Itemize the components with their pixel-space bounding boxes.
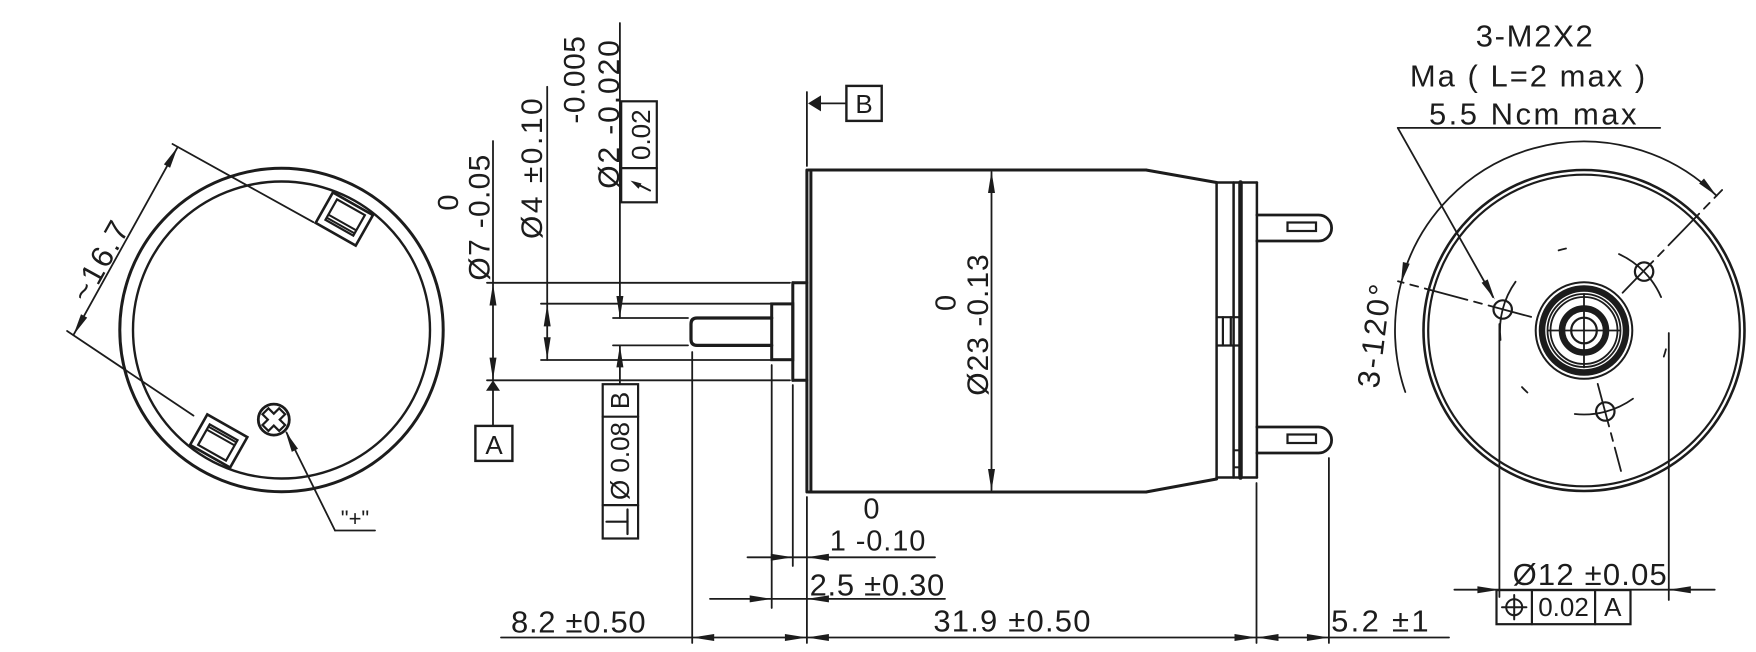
- dia4 dimension line: [546, 87, 548, 360]
- position FCF frame: [1497, 590, 1631, 624]
- screw hole 3: [1596, 402, 1614, 420]
- body outline: [807, 170, 1217, 492]
- bottom extension line collar: [771, 365, 773, 608]
- datum B extension line: [806, 92, 808, 166]
- svg-text:0.02: 0.02: [626, 109, 656, 160]
- dia7 arrow up: [490, 284, 497, 306]
- svg-text:5.5 Ncm max: 5.5 Ncm max: [1429, 97, 1639, 132]
- dia2 dimension line: [619, 23, 621, 318]
- left view outer circle: [120, 168, 443, 491]
- svg-text:0: 0: [931, 295, 963, 311]
- svg-text:Ø4 ±0.10: Ø4 ±0.10: [516, 96, 549, 239]
- boss thick ring: [1542, 289, 1626, 373]
- svg-text:-0.005: -0.005: [559, 36, 592, 124]
- terminal pin top: [1257, 215, 1332, 241]
- bottom extension line shaft tip: [691, 352, 693, 643]
- dim ~16.7 extension line bottom: [67, 331, 193, 416]
- datum A leader: [492, 391, 494, 426]
- bottom extension line cap right: [1256, 483, 1258, 643]
- dia23 arrow up: [988, 171, 995, 193]
- arrows 8.2: [692, 634, 714, 641]
- end cap: [1217, 183, 1257, 478]
- dia4 arrow down: [544, 337, 551, 359]
- bottom dim line: [501, 637, 1449, 639]
- shaft inner circle: [1571, 318, 1597, 344]
- leader M2 callout: [1398, 128, 1493, 297]
- screw hole 2: [1494, 300, 1512, 318]
- dia7 dimension line: [492, 141, 494, 380]
- datum B triangle: [808, 95, 821, 111]
- terminal pin bottom slot: [1288, 435, 1317, 444]
- dia4 arrow up: [544, 304, 551, 326]
- radial centerline hole3: [1598, 384, 1621, 471]
- svg-text:Ø23 -0.13: Ø23 -0.13: [962, 253, 995, 395]
- datum A box: [475, 426, 512, 461]
- arc arrowhead left: [1401, 262, 1410, 283]
- dia12 dimension line: [1454, 589, 1714, 591]
- dia7 arrow down: [490, 358, 497, 380]
- svg-text:0: 0: [863, 494, 879, 526]
- center crosshair: [1549, 330, 1620, 332]
- right view outer circle: [1424, 170, 1745, 491]
- svg-text:A: A: [485, 430, 503, 460]
- boss circle dia7: [1536, 282, 1633, 379]
- shaft boss dia7: [793, 283, 807, 381]
- leader line to "+" label: [287, 433, 336, 531]
- perpendicularity symbol: [626, 510, 628, 535]
- svg-text:2.5 ±0.30: 2.5 ±0.30: [810, 568, 945, 603]
- X cross inside terminal: [257, 403, 290, 436]
- bolt circle dashed: [1619, 254, 1661, 297]
- svg-text:8.2 ±0.50: 8.2 ±0.50: [511, 605, 646, 640]
- dia2 extension lines: [613, 317, 688, 319]
- svg-text:B: B: [855, 89, 872, 119]
- dia23 arrow down: [988, 469, 995, 491]
- dim ~16.7 arrowhead bottom: [73, 314, 87, 335]
- brush tab bottom-left: [190, 414, 247, 467]
- terminal pin bottom: [1257, 427, 1332, 453]
- radial centerline hole1: [1623, 190, 1723, 293]
- dia2 arrow upper: [616, 296, 623, 318]
- svg-text:A: A: [1604, 592, 1622, 622]
- datum A triangle: [486, 380, 500, 391]
- svg-text:B: B: [605, 392, 635, 409]
- bottom extension line body face: [806, 497, 808, 643]
- shaft thick ring: [1562, 309, 1606, 353]
- shaft collar dia4: [772, 304, 793, 360]
- svg-text:Ma ( L=2 max ): Ma ( L=2 max ): [1410, 59, 1647, 94]
- screw hole 1: [1635, 262, 1653, 280]
- underline 5.5 Ncm max: [1398, 127, 1660, 129]
- arrows 31.9: [807, 634, 829, 641]
- boss circle mid2: [1551, 297, 1618, 364]
- dim ~16.7 arrowhead top: [164, 147, 178, 168]
- datum B box: [846, 86, 881, 121]
- bottom extension line boss: [792, 385, 794, 566]
- dim 2.5 line: [710, 598, 945, 600]
- left view inner rim circle: [133, 182, 430, 479]
- svg-text:0.02: 0.02: [1538, 592, 1589, 622]
- 120 deg dimension arc: [1401, 141, 1717, 283]
- dim 1 -0.10 line: [748, 556, 936, 558]
- dia2 arrow lower: [616, 345, 623, 367]
- radial centerline hole2: [1398, 281, 1531, 317]
- shaft tip dia2: [691, 318, 772, 345]
- boss circle mid1: [1548, 294, 1621, 367]
- svg-text:31.9 ±0.50: 31.9 ±0.50: [933, 604, 1091, 639]
- svg-text:5.2 ±1: 5.2 ±1: [1331, 604, 1431, 639]
- dim ~16.7 line: [73, 147, 177, 335]
- runout symbol arrow: [636, 184, 650, 191]
- position symbol: [1506, 599, 1522, 615]
- "+" label underline: [335, 530, 375, 532]
- svg-text:0: 0: [433, 194, 465, 210]
- bottom extension line pin tip: [1328, 458, 1330, 643]
- arc arrowhead right: [1699, 179, 1716, 196]
- dia7 extension lines: [487, 282, 790, 284]
- right view inner rim circle: [1428, 175, 1740, 487]
- terminal pin top slot: [1288, 223, 1317, 232]
- dia12 extension lines: [1498, 324, 1500, 597]
- svg-text:Ø 0.08: Ø 0.08: [605, 422, 635, 500]
- svg-text:Ø7 -0.05: Ø7 -0.05: [464, 153, 497, 280]
- svg-text:Ø12 ±0.05: Ø12 ±0.05: [1513, 557, 1668, 592]
- runout FCF frame: [621, 101, 657, 202]
- leader arrowhead at terminal: [286, 432, 299, 452]
- dia23 dimension line: [991, 172, 993, 490]
- dim ~16.7 extension line top: [173, 144, 314, 222]
- brush tab top-right: [316, 192, 373, 245]
- perpendicularity FCF frame: [603, 384, 638, 538]
- plus terminal circle with X: [258, 404, 289, 435]
- svg-text:"+": "+": [341, 506, 369, 531]
- datum B leader: [820, 102, 846, 104]
- svg-text:3-M2X2: 3-M2X2: [1476, 19, 1595, 54]
- dia4 extension lines: [541, 303, 770, 305]
- svg-text:1 -0.10: 1 -0.10: [830, 526, 927, 558]
- arrows 5.2: [1257, 634, 1279, 641]
